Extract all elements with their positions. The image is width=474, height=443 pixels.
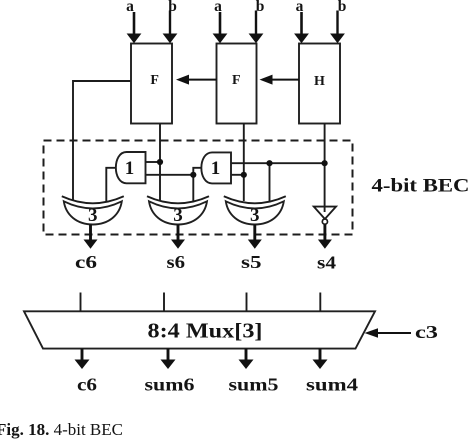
dashed boundary box of the 4-bit BEC — [44, 141, 353, 235]
wire s6 into mux — [163, 293, 165, 312]
full-adder cell F2 — [217, 44, 257, 124]
arrow from H to F2 — [260, 75, 300, 85]
output arrow sum5 of mux — [239, 349, 254, 369]
xor-gate X3 (label 3) — [224, 196, 286, 226]
wire AND2 top input stub across to node on H line — [231, 162, 325, 164]
output arrow c6 of XOR1 — [84, 225, 98, 249]
output arrow sum6 of mux — [161, 349, 176, 369]
wire AND2 output step down to node — [193, 168, 203, 201]
full-adder cell F1 — [131, 44, 172, 124]
svg-text:Fig. 18. 4-bit BEC: Fig. 18. 4-bit BEC — [0, 420, 123, 439]
output arrow s4 of inverter — [318, 224, 332, 248]
junction node AND2 output / XOR2 input — [190, 172, 196, 178]
arrow from F2 to F1 — [176, 75, 217, 85]
wire s4 into mux — [319, 293, 321, 312]
arrow a into F1 — [127, 12, 142, 43]
wire AND2 bottom input stub to node on F2 line — [231, 174, 244, 176]
arrow b into F1 — [163, 11, 178, 44]
inverter (NOT gate) — [314, 207, 336, 225]
output arrow s5 of XOR3 — [248, 225, 262, 249]
junction node on wire to XOR3 right input — [266, 160, 272, 166]
junction node on F1 line / AND1 input — [157, 159, 163, 165]
output arrow s6 of XOR2 — [171, 225, 185, 249]
output arrow sum4 of mux — [313, 349, 328, 369]
wire from H bottom down to inverter input — [324, 124, 326, 213]
svg-text:b: b — [338, 0, 347, 15]
wire s5 into mux — [246, 293, 248, 312]
wire from F1 left side down to XOR1 left input — [73, 81, 131, 201]
svg-text:sum6: sum6 — [145, 375, 195, 395]
arrow a into H — [294, 12, 309, 43]
arrow c3 select input into mux — [365, 328, 412, 338]
wire AND1 top input stub to node on F1 line — [146, 161, 161, 163]
svg-text:F: F — [150, 73, 159, 88]
wire c6 into mux — [80, 293, 82, 312]
svg-text:sum4: sum4 — [306, 375, 358, 395]
junction node on H line — [322, 160, 328, 166]
multiplexer 8:4 Mux[3] — [24, 311, 375, 348]
svg-text:s4: s4 — [317, 253, 336, 273]
svg-text:8:4 Mux[3]: 8:4 Mux[3] — [148, 319, 263, 343]
and-gate U2 (label 1) — [201, 152, 231, 183]
arrow a into F2 — [213, 12, 228, 43]
xor-gate X1 (label 3) — [62, 196, 124, 226]
output arrow c6 of mux — [75, 349, 90, 369]
svg-text:s6: s6 — [167, 252, 186, 272]
half-adder cell H — [299, 44, 340, 124]
svg-text:s5: s5 — [241, 252, 262, 272]
svg-text:c6: c6 — [75, 252, 97, 272]
wire from F2 bottom down to XOR3 left input — [243, 124, 245, 202]
svg-text:3: 3 — [88, 205, 98, 226]
svg-text:c6: c6 — [77, 375, 97, 395]
arrow b into F2 — [249, 11, 264, 44]
svg-text:3: 3 — [250, 205, 260, 226]
wire AND1 bottom input to AND2 output node — [146, 174, 194, 176]
arrow b into H — [330, 11, 345, 44]
svg-text:H: H — [314, 74, 325, 89]
svg-text:1: 1 — [211, 158, 221, 179]
junction node on F2 line / AND2 input — [241, 172, 247, 178]
and-gate U1 (label 1) — [116, 152, 146, 183]
svg-text:F: F — [232, 73, 241, 88]
svg-text:sum5: sum5 — [229, 375, 279, 395]
svg-text:4-bit BEC: 4-bit BEC — [372, 177, 470, 197]
svg-text:1: 1 — [125, 158, 135, 179]
svg-text:3: 3 — [173, 205, 183, 226]
wire from F1 bottom down to XOR2 left input — [159, 124, 161, 202]
wire AND1 output down to XOR1 right input — [106, 168, 117, 201]
wire from node down to XOR3 right input — [269, 163, 271, 201]
xor-gate X2 (label 3) — [147, 196, 209, 226]
svg-text:c3: c3 — [415, 322, 438, 342]
